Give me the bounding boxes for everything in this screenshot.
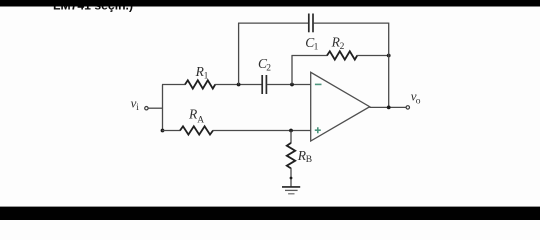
op-amp U1 [311,72,370,141]
wire: inverting branch left segment [162,84,185,86]
op-amp plus sign [315,127,321,133]
wire: C1 branch top left segment [238,22,308,24]
node: junction dot R1/C1 branch [237,83,241,87]
svg-text:A: A [197,116,204,126]
bottom letterbox bar [0,207,540,220]
resistor RB (vertical) [287,143,295,169]
resistor RA [180,126,213,134]
wire: R2 branch left segment [291,55,327,57]
capacitor C1 [308,14,310,33]
node: junction dot RB top [289,129,293,133]
wire: RA to op-amp non-inverting input [213,130,311,132]
wire: RB bottom vertical to ground [290,168,292,187]
node: junction dot R2 branch / inverting input [290,83,294,87]
svg-text:2: 2 [266,64,271,74]
svg-text:2: 2 [340,42,345,52]
resistor R1 [185,80,215,88]
capacitor C2 [261,75,263,94]
svg-text:o: o [416,96,421,106]
svg-text:1: 1 [204,72,209,82]
node: junction dot R2/right vertical [387,54,391,58]
wire: right feedback vertical [388,23,390,108]
terminal vo (open circle) [406,106,409,109]
wire: RB top vertical [290,131,292,144]
top letterbox bar [0,0,540,7]
node: junction dot input/RA branch [161,129,165,133]
ground [282,186,300,188]
svg-text:B: B [306,155,312,165]
wire: non-inverting branch (RA branch) left segment [162,130,180,132]
wire: R2 branch left vertical [291,56,293,85]
op-amp minus sign [315,83,322,85]
resistor R2 [327,51,357,59]
wire: input stub to vi terminal [148,107,162,109]
wire: output segment [370,106,407,108]
node: small dot above ground [290,177,293,180]
wire: R1 to C2 [215,84,262,86]
node: output junction dot [387,106,391,110]
svg-text:i: i [136,103,139,113]
wire: R2 branch right segment [357,55,389,57]
wire: input vertical joining R1 and RA branches [162,85,164,131]
svg-text:1: 1 [314,43,319,53]
wire: C1 branch left vertical [238,23,240,84]
terminal vi (open circle) [145,107,148,110]
wire: C2 to op-amp inverting input [267,84,311,86]
wire: C1 branch top right segment [313,22,388,24]
